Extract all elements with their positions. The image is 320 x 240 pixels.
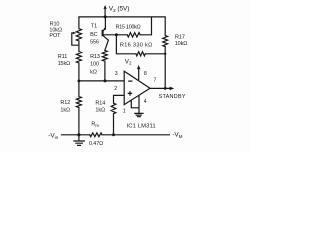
svg-text:R15 100kΩ: R15 100kΩ xyxy=(116,25,141,31)
svg-text:1kΩ: 1kΩ xyxy=(60,107,70,113)
svg-text:0.47Ω: 0.47Ω xyxy=(89,141,103,147)
svg-text:kΩ: kΩ xyxy=(90,69,97,75)
svg-text:556: 556 xyxy=(90,40,99,46)
svg-text:STANDBY: STANDBY xyxy=(159,94,186,100)
svg-text:7: 7 xyxy=(154,77,157,83)
svg-text:R16 330 kΩ: R16 330 kΩ xyxy=(120,43,153,49)
svg-text:10kΩ: 10kΩ xyxy=(175,41,188,47)
svg-text:4: 4 xyxy=(144,99,147,105)
svg-text:Rm: Rm xyxy=(91,122,99,128)
svg-text:1kΩ: 1kΩ xyxy=(95,107,105,113)
svg-text:POT: POT xyxy=(49,33,61,39)
svg-text:100: 100 xyxy=(90,62,99,68)
svg-text:R12: R12 xyxy=(60,100,70,106)
svg-text:15kΩ: 15kΩ xyxy=(58,61,71,67)
svg-text:R17: R17 xyxy=(175,34,185,40)
svg-text:3: 3 xyxy=(115,71,118,77)
svg-text:IC1 LM311: IC1 LM311 xyxy=(127,123,156,129)
svg-text:R14: R14 xyxy=(95,101,105,107)
svg-text:1: 1 xyxy=(123,109,126,115)
svg-text:2: 2 xyxy=(114,86,117,92)
svg-text:R11: R11 xyxy=(58,54,67,60)
svg-text:8: 8 xyxy=(144,71,147,77)
svg-text:T1: T1 xyxy=(91,24,97,30)
svg-text:BC: BC xyxy=(90,32,98,38)
svg-text:R13: R13 xyxy=(90,54,100,60)
